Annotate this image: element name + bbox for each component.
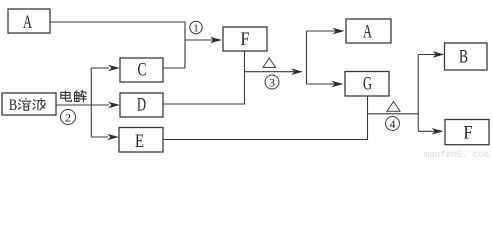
svg-text:F: F: [241, 29, 250, 50]
label circled 4: [386, 117, 400, 132]
wire to E with arrow: [91, 136, 108, 138]
svg-text:E: E: [135, 131, 144, 152]
box D: [120, 93, 163, 117]
box G: [345, 72, 389, 97]
box A (right): [346, 19, 391, 43]
svg-text:B: B: [9, 97, 17, 114]
wire split vertical right of arrow3: [306, 31, 308, 84]
box F (bottom-right): [445, 120, 489, 145]
wire junction to F with arrow: [185, 39, 214, 41]
box B (right): [445, 43, 488, 70]
wire C to junction: [163, 67, 185, 69]
glyph 溶: [18, 98, 30, 110]
label circled 1: [190, 21, 202, 34]
label dianjie (electrolysis) glyph 电: [61, 90, 72, 101]
box B solution (left): [2, 93, 56, 115]
wire branch 3 with arrow: [245, 71, 295, 73]
label circled 2: [61, 110, 76, 125]
glyph 液: [33, 98, 46, 110]
wire vertical splitter: [90, 68, 92, 137]
svg-text:C: C: [138, 60, 147, 81]
box A (top-left): [8, 9, 50, 33]
wire branch 4: [368, 113, 419, 115]
wire B to D with arrow: [56, 104, 109, 106]
svg-text:A: A: [23, 12, 32, 33]
svg-text:2: 2: [65, 111, 71, 125]
wire A to junction: [50, 22, 185, 68]
svg-text:1: 1: [193, 23, 199, 35]
triangle delta 4: [387, 102, 400, 112]
svg-text:4: 4: [390, 117, 396, 131]
wire to B2 with arrow: [418, 54, 436, 56]
box F (middle): [223, 27, 267, 51]
svg-text:manfen5. com: manfen5. com: [424, 150, 489, 158]
glyph 解: [75, 90, 87, 102]
svg-text:B: B: [459, 47, 468, 68]
wire right vertical: [417, 55, 419, 132]
label circled 3: [265, 75, 279, 90]
svg-text:A: A: [363, 22, 372, 43]
box C: [120, 58, 163, 82]
wire D to F-vertical: [163, 51, 245, 104]
wire to A2 with arrow: [307, 30, 337, 32]
wire to C with arrow: [91, 67, 109, 69]
svg-text:F: F: [464, 123, 473, 144]
wire E long line to G-vertical: [163, 96, 368, 140]
wire to F2 with arrow: [418, 130, 435, 132]
svg-text:D: D: [137, 95, 146, 116]
svg-text:G: G: [363, 74, 372, 95]
triangle delta 3: [263, 58, 276, 67]
svg-text:3: 3: [269, 76, 275, 90]
box E: [119, 128, 163, 153]
wire to G with arrow: [307, 83, 336, 85]
